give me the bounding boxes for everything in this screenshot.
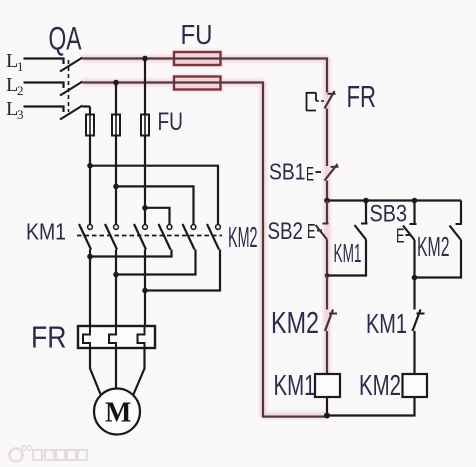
label KM2 (interlock): [271, 306, 319, 340]
contactor KM2 main contact 4: [159, 224, 172, 250]
wire cross-connect contact5 bottom: [116, 250, 196, 275]
fuse FU1 (L1 horizontal fuse): [174, 52, 221, 65]
wire L1 input: [24, 59, 64, 65]
wire KM2 aux upper: [460, 201, 462, 225]
svg-text:FU: FU: [181, 19, 213, 50]
label KM2 (aux contact): [417, 231, 450, 262]
label L1: [6, 50, 24, 74]
wire cross-connect contact6 bottom: [145, 250, 220, 291]
node junction bottom phase1: [142, 288, 148, 294]
wire cross-connect contact4 bottom: [90, 250, 172, 257]
svg-text:SB3: SB3: [370, 201, 408, 228]
wire FR to motor lead 3: [133, 348, 145, 396]
label KM1 (aux contact): [334, 238, 362, 268]
contactor KM2 interlock contact (NC): [325, 310, 337, 332]
contactor KM1 auxiliary contact (NO, self-hold): [355, 224, 368, 240]
wire SB3 upper: [413, 201, 415, 225]
node junction L1/phase-drop: [142, 56, 148, 62]
switch QA blade pole 1: [60, 58, 83, 72]
node junction SB3/KM2aux bottom: [412, 275, 418, 281]
svg-text:KM2: KM2: [417, 231, 450, 262]
watermark logo: [10, 446, 88, 462]
node junction bottom phase3: [87, 254, 93, 260]
wire feed phase1 to contact 4: [145, 208, 170, 225]
label KM1 (coil): [274, 370, 316, 402]
contactor KM2 main contact 5: [183, 224, 196, 250]
contactor KM1 interlock contact (NC): [413, 310, 425, 332]
wire FR to motor lead 1: [90, 348, 101, 396]
label FU (side): [158, 108, 184, 136]
fuse FU4 (vertical, phase 2): [112, 115, 120, 136]
wire phase drop P3 (from L3): [89, 107, 91, 115]
wire control left rail top (down to FR contact): [326, 57, 328, 92]
svg-text:1: 1: [17, 59, 24, 74]
label KM2 (main contacts): [228, 222, 258, 254]
wire motor lead 2 to FR: [115, 275, 117, 327]
wire right rail to KM1 interlock: [413, 278, 415, 310]
wire motor lead 1 to FR: [89, 257, 91, 327]
wire contact3 down: [144, 250, 146, 291]
thermal relay FR heater box: [78, 326, 155, 348]
contactor KM2 auxiliary contact (NO, self-hold): [450, 224, 463, 240]
wire control top rail: [327, 199, 461, 201]
wire KM1 aux upper: [365, 201, 367, 224]
linkage dashed line across main contacts: [77, 235, 222, 237]
svg-text:KM2: KM2: [228, 222, 258, 254]
node junction SB2/KM1aux bottom: [325, 273, 330, 278]
wire contact1 down: [89, 250, 91, 257]
label FR (thermal relay): [31, 321, 67, 355]
wire KM1 interlock to KM2 coil: [413, 331, 415, 374]
FR heater element 1: [83, 326, 90, 348]
node junction P2/feed: [113, 184, 119, 190]
node junction L2/phase-drop: [113, 80, 119, 86]
coil KM1: [315, 374, 340, 397]
switch QA linkage (dashed): [68, 60, 70, 112]
svg-text:2: 2: [17, 83, 24, 98]
svg-text:KM1: KM1: [366, 308, 407, 339]
motor M: [94, 389, 140, 435]
svg-text:3: 3: [17, 107, 24, 122]
wire SB2 lower to parallel node: [326, 240, 328, 277]
label L2: [6, 74, 24, 98]
wire control return drop (left): [263, 81, 327, 416]
coil KM2: [403, 374, 428, 397]
wire P3 fuse to contact 1: [89, 136, 91, 225]
wire phase drop P2 (from L2): [115, 83, 117, 115]
label QA: [49, 21, 82, 57]
wire L2 input: [24, 83, 64, 89]
label SB2: [268, 218, 304, 245]
wire feed phase2 to contact 5: [116, 186, 194, 224]
svg-text:SB2: SB2: [268, 218, 304, 245]
wire FR to motor lead 2: [115, 348, 117, 389]
svg-text:KM1: KM1: [274, 370, 316, 402]
FR heater element 2: [109, 326, 116, 348]
label SB1: [269, 159, 306, 185]
wire bottom rail to KM2 coil: [327, 397, 415, 416]
wire left rail SB1 to top rail node: [326, 181, 328, 201]
svg-text:KM2: KM2: [271, 306, 319, 340]
node junction top rail / KM1 aux: [363, 198, 369, 204]
wire SB2 upper: [326, 201, 328, 224]
label KM1 (interlock): [366, 308, 407, 339]
wire KM2 interlock to KM1 coil: [326, 331, 328, 374]
wire KM2 aux lower + bottom link: [415, 240, 462, 278]
label KM1 (main contacts): [26, 219, 66, 245]
wire contact2 down: [115, 250, 117, 275]
svg-text:SB1: SB1: [269, 159, 306, 185]
wire phase drop P1 (from L1): [144, 59, 146, 115]
switch QA blade pole 2: [60, 82, 83, 96]
wire SB3 lower to parallel node: [413, 240, 415, 278]
node junction top rail / SB3: [412, 198, 418, 204]
svg-text:QA: QA: [49, 21, 82, 57]
wire L2 row to drop corner: [83, 81, 264, 83]
svg-text:E: E: [306, 165, 314, 186]
wire L3 input: [24, 107, 64, 113]
svg-text:KM1: KM1: [26, 219, 66, 245]
FR heater element 3: [138, 326, 145, 348]
label KM2 (coil): [359, 370, 401, 402]
svg-text:M: M: [105, 398, 131, 429]
svg-text:FR: FR: [31, 321, 67, 355]
switch QA blade pole 3: [60, 106, 83, 120]
wire motor lead 3 to FR: [144, 291, 146, 327]
pushbutton SB1 (NC stop): [306, 164, 339, 186]
wire L1 row to control corner: [83, 57, 328, 59]
fuse FU3 (vertical, phase 3): [86, 115, 94, 136]
wire KM1 aux lower + bottom link: [327, 240, 366, 276]
contactor KM1 main contact 3: [134, 224, 147, 250]
wire L3 row to phase drop: [83, 105, 91, 107]
contactor KM2 main contact 6: [207, 224, 220, 250]
wire KM1 coil to bottom rail: [326, 397, 328, 416]
node junction top rail / SB2: [324, 198, 330, 204]
thermal relay FR contact (NC, control): [307, 91, 336, 111]
svg-text:E: E: [307, 221, 316, 243]
contactor KM1 main contact 1: [79, 224, 92, 250]
label FU (top): [181, 19, 213, 50]
fuse FU2 (L2 horizontal fuse): [174, 77, 221, 90]
wire left rail FR to SB1: [326, 109, 328, 167]
label FR (contact): [347, 79, 377, 114]
svg-text:FU: FU: [158, 108, 184, 136]
contactor KM1 main contact 2: [105, 224, 118, 250]
wire left rail to KM2 interlock: [326, 276, 328, 310]
svg-text:FR: FR: [347, 79, 377, 114]
label L3: [6, 98, 24, 122]
control wire pink halo: [83, 50, 328, 417]
fuse FU5 (vertical, phase 1): [141, 115, 149, 136]
svg-text:KM2: KM2: [359, 370, 401, 402]
wire P2 fuse to contact 2: [115, 136, 117, 225]
node junction P3/feed: [87, 163, 93, 169]
node junction bottom phase2: [113, 272, 119, 278]
wire P1 fuse to contact 3: [144, 136, 146, 225]
node junction bottom rail: [324, 413, 330, 419]
node junction P1/feed: [142, 205, 148, 211]
label SB3: [370, 201, 408, 228]
pushbutton SB2 (NO start fwd): [307, 221, 329, 243]
wire feed phase3 to contact 6: [90, 166, 218, 225]
svg-text:E: E: [396, 226, 405, 248]
pushbutton SB3 (NO start rev): [396, 224, 417, 248]
svg-text:KM1: KM1: [334, 238, 362, 268]
